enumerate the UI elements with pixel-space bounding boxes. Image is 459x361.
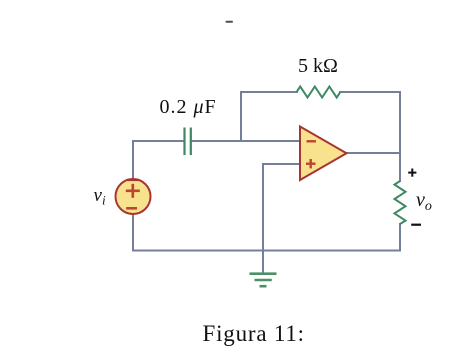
svg-text:Figura 11:: Figura 11: xyxy=(203,321,305,346)
svg-text:vi: vi xyxy=(94,185,106,208)
svg-text:vo: vo xyxy=(416,189,432,214)
svg-text:5 kΩ: 5 kΩ xyxy=(298,55,338,77)
svg-text:0.2 μF: 0.2 μF xyxy=(160,96,217,118)
